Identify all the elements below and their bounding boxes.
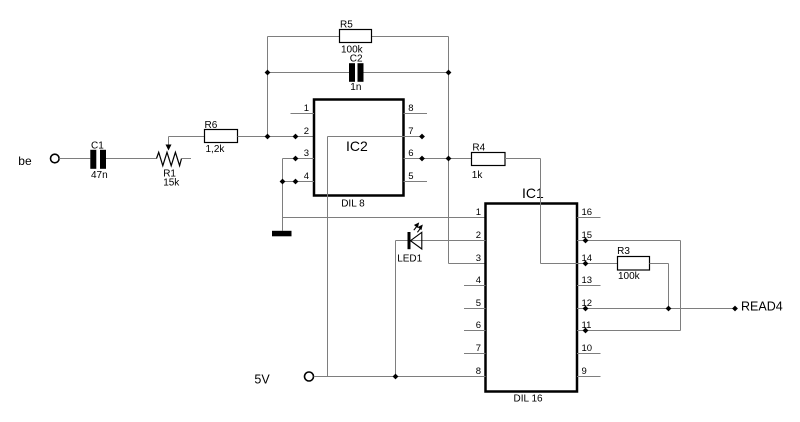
wire to IC1 pin 3 xyxy=(449,263,486,265)
IC1 pin 13 stub xyxy=(577,285,601,287)
IC1 pin 14 wire to R3 xyxy=(577,263,618,265)
svg-text:7: 7 xyxy=(476,343,481,354)
wire IC2 pin 7 down to 5V rail xyxy=(327,137,329,377)
wire wiper to R6 xyxy=(169,136,205,138)
wire LED branch down to 5V rail xyxy=(395,241,397,377)
svg-text:LED1: LED1 xyxy=(397,254,422,265)
wire top row left of R5 xyxy=(268,36,340,38)
svg-text:READ4: READ4 xyxy=(741,300,783,314)
IC1 pin 16 stub xyxy=(577,217,601,219)
svg-text:47n: 47n xyxy=(91,170,108,181)
IC1 pin 12 wire to READ4 xyxy=(577,308,735,310)
resistor R3 xyxy=(618,257,650,271)
svg-text:3: 3 xyxy=(476,253,481,264)
svg-text:R6: R6 xyxy=(205,120,218,131)
junction IC1 pin 15 xyxy=(583,238,589,244)
wire C1 to R1 xyxy=(106,158,157,160)
svg-text:6: 6 xyxy=(476,320,481,331)
svg-text:15k: 15k xyxy=(163,178,180,189)
resistor R1 (potentiometer zigzag) xyxy=(157,152,182,165)
resistor R1 wiper arrow xyxy=(166,137,172,151)
svg-text:be: be xyxy=(18,154,32,168)
wire IC2 pin 7 inner horizontal xyxy=(328,136,404,138)
svg-text:4: 4 xyxy=(304,171,309,182)
wire C2 row right xyxy=(364,72,449,74)
junction READ4 terminal xyxy=(732,306,738,312)
svg-text:5: 5 xyxy=(408,171,413,182)
junction R3 READ4 row xyxy=(666,306,672,312)
svg-text:5: 5 xyxy=(476,298,481,309)
svg-text:1: 1 xyxy=(304,103,309,114)
svg-text:1k: 1k xyxy=(472,170,484,181)
wire LED row to IC1 pin 2 xyxy=(396,240,486,242)
node be terminal circle xyxy=(51,154,60,163)
svg-text:1: 1 xyxy=(476,207,481,218)
junction LED branch on 5V rail xyxy=(393,374,399,380)
svg-text:13: 13 xyxy=(582,275,593,286)
svg-text:R5: R5 xyxy=(340,20,353,31)
svg-text:8: 8 xyxy=(408,103,413,114)
IC1 pin 11 wire xyxy=(577,330,681,332)
junction C2 right xyxy=(446,70,452,76)
svg-text:R3: R3 xyxy=(617,246,630,257)
junction IC2 pin 6 stub end xyxy=(419,156,425,162)
node 5V terminal circle xyxy=(305,372,314,381)
wire C2 row left xyxy=(268,72,350,74)
wire be to C1 xyxy=(59,158,90,160)
junction R6 row left vertical xyxy=(265,134,271,140)
IC2 pin 4 wire xyxy=(283,181,315,183)
resistor R6 xyxy=(205,130,238,143)
svg-text:C2: C2 xyxy=(350,54,363,65)
svg-text:DIL 16: DIL 16 xyxy=(514,393,544,404)
IC1 pin 9 stub xyxy=(577,376,601,378)
wire 5V rail to IC1 pin 8 xyxy=(314,376,486,378)
IC1 pin 15 wire xyxy=(577,240,681,242)
wire ground vertical from pin 3 xyxy=(282,159,284,231)
IC2 pin 1 stub xyxy=(291,113,315,115)
IC1 pin 7 stub xyxy=(464,353,486,355)
svg-text:1n: 1n xyxy=(350,82,361,93)
logic IC1 body xyxy=(486,204,578,392)
junction IC2 pin 2 xyxy=(293,134,299,140)
wire R4 to corner xyxy=(505,158,541,160)
svg-text:R4: R4 xyxy=(472,142,485,153)
junction IC1 pin 14 xyxy=(583,261,589,267)
wire inner IC1 pin 14 route xyxy=(541,263,578,265)
op-amp IC2 body xyxy=(314,100,404,196)
wire R3 down to READ4 row xyxy=(668,264,670,309)
wire right vertical from top row to IC1 pin 3 row xyxy=(448,37,450,264)
wire pin15 to pin11 vertical xyxy=(680,241,682,331)
ground xyxy=(272,231,292,237)
IC1 pin 6 stub xyxy=(464,330,486,332)
capacitor C1 xyxy=(90,150,106,169)
wire top row right of R5 xyxy=(372,36,449,38)
IC2 pin 8 stub xyxy=(404,113,428,115)
svg-text:7: 7 xyxy=(408,126,413,137)
wire R3 to corner xyxy=(650,263,669,265)
IC2 pin 5 stub xyxy=(404,181,428,183)
wire left vertical feedback branch xyxy=(267,37,269,137)
IC1 pin 10 stub xyxy=(577,353,601,355)
svg-text:IC2: IC2 xyxy=(346,138,368,154)
junction IC2 pin 4 xyxy=(293,179,299,185)
svg-text:C1: C1 xyxy=(91,141,104,152)
junction IC1 pin 12 xyxy=(583,306,589,312)
IC2 pin 7 stub xyxy=(404,136,425,138)
junction IC2 pin 7 stub end xyxy=(419,134,425,140)
svg-text:8: 8 xyxy=(476,366,481,377)
wire R6 to IC2 pin 2 xyxy=(238,136,315,138)
wire R4 down to IC1 pin 14 row xyxy=(540,159,542,264)
svg-text:2: 2 xyxy=(476,230,481,241)
svg-text:4: 4 xyxy=(476,275,481,286)
svg-text:5V: 5V xyxy=(254,373,270,387)
svg-text:6: 6 xyxy=(408,148,413,159)
IC1 pin 4 stub xyxy=(464,285,486,287)
resistor R5 xyxy=(340,30,372,43)
svg-text:100k: 100k xyxy=(618,271,641,282)
svg-text:DIL 8: DIL 8 xyxy=(341,199,365,210)
svg-text:16: 16 xyxy=(582,207,593,218)
junction pin 4 bend xyxy=(280,179,286,185)
junction C2 left xyxy=(265,70,271,76)
svg-text:10: 10 xyxy=(582,343,593,354)
svg-text:9: 9 xyxy=(582,366,587,377)
wire R1 right stub xyxy=(182,158,192,160)
LED LED1 xyxy=(408,222,423,249)
IC2 pin 3 wire xyxy=(283,158,315,160)
wire to IC1 pin 1 xyxy=(283,217,486,219)
IC2 pin 6 wire to R4 xyxy=(404,158,472,160)
resistor R4 xyxy=(472,153,506,166)
svg-text:2: 2 xyxy=(304,126,309,137)
svg-text:3: 3 xyxy=(304,148,309,159)
junction IC1 pin 11 xyxy=(583,328,589,334)
junction IC2 pin 3 xyxy=(293,156,299,162)
capacitor C2 xyxy=(349,63,364,82)
svg-text:1,2k: 1,2k xyxy=(206,144,226,155)
IC1 pin 5 stub xyxy=(464,308,486,310)
junction pin 6 row right vertical xyxy=(446,156,452,162)
